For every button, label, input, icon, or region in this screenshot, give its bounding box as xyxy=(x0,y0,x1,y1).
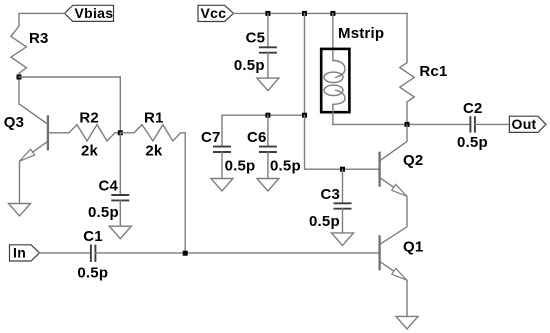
wire xyxy=(40,252,91,254)
node collector xyxy=(405,122,410,127)
svg-text:Vcc: Vcc xyxy=(201,5,227,21)
ground (Q1 emitter) xyxy=(396,316,418,329)
svg-text:R3: R3 xyxy=(29,30,49,47)
wire xyxy=(119,77,121,133)
node R2/R1 junction xyxy=(118,130,123,135)
svg-text:2k: 2k xyxy=(145,143,163,160)
svg-text:Q3: Q3 xyxy=(4,114,24,131)
transistor Q3 xyxy=(4,104,69,203)
svg-text:C6: C6 xyxy=(247,129,267,146)
wire xyxy=(222,114,305,116)
svg-text:Q2: Q2 xyxy=(403,152,423,169)
wire xyxy=(406,13,408,62)
svg-text:0.5p: 0.5p xyxy=(234,57,265,74)
ground (C3) xyxy=(332,233,354,246)
node bias junction xyxy=(17,75,22,80)
svg-text:C5: C5 xyxy=(246,30,266,47)
wire xyxy=(19,12,65,14)
svg-text:C4: C4 xyxy=(99,178,119,195)
svg-text:0.5p: 0.5p xyxy=(309,213,340,230)
capacitor C5 xyxy=(234,13,277,78)
capacitor C2 xyxy=(457,100,509,151)
port Vbias xyxy=(65,5,114,22)
ground (C6) xyxy=(257,179,279,192)
svg-text:Q1: Q1 xyxy=(403,239,423,256)
port Out xyxy=(509,116,546,133)
ground (C5) xyxy=(257,78,279,91)
resistor Rc1 xyxy=(400,63,448,102)
wire xyxy=(406,102,408,125)
resistor R3 xyxy=(11,13,49,77)
svg-text:In: In xyxy=(13,244,26,260)
transistor Q2 xyxy=(380,124,424,226)
ground (C7) xyxy=(211,179,233,192)
capacitor C1 xyxy=(77,228,108,281)
svg-text:R1: R1 xyxy=(144,109,164,126)
wire xyxy=(95,252,379,254)
transistor Q1 xyxy=(380,227,424,317)
svg-text:C2: C2 xyxy=(463,100,483,117)
wire xyxy=(234,12,408,14)
node Vcc/Mstrip xyxy=(330,11,335,16)
svg-text:C1: C1 xyxy=(83,228,103,245)
svg-text:Vbias: Vbias xyxy=(75,5,114,21)
node C7 rail / col2 xyxy=(302,113,307,118)
wire xyxy=(304,13,306,115)
node Q2 base / C3 xyxy=(340,167,345,172)
ground (C4) xyxy=(109,226,131,239)
node Vcc/col2 xyxy=(302,11,307,16)
svg-text:Mstrip: Mstrip xyxy=(338,25,384,42)
resistor R1 xyxy=(120,109,185,159)
node C7 rail / C6 xyxy=(265,113,270,118)
node input junction xyxy=(183,251,188,256)
svg-text:0.5p: 0.5p xyxy=(77,265,108,282)
microstrip Mstrip xyxy=(321,13,384,124)
svg-text:C3: C3 xyxy=(321,186,341,203)
svg-text:C7: C7 xyxy=(201,129,221,146)
svg-text:Rc1: Rc1 xyxy=(419,63,447,80)
svg-text:0.5p: 0.5p xyxy=(457,134,488,151)
capacitor C3 xyxy=(309,169,352,233)
wire xyxy=(18,77,20,104)
svg-text:2k: 2k xyxy=(81,143,99,160)
wire xyxy=(333,123,471,125)
ground (Q3 emitter) xyxy=(9,204,31,217)
svg-text:0.5p: 0.5p xyxy=(88,204,119,221)
svg-text:0.5p: 0.5p xyxy=(225,158,256,175)
port In xyxy=(10,244,40,261)
wire xyxy=(19,76,120,78)
resistor R2 xyxy=(69,109,120,159)
wire xyxy=(305,115,380,169)
svg-text:R2: R2 xyxy=(79,109,99,126)
wire xyxy=(184,133,186,253)
capacitor C6 xyxy=(247,115,301,178)
svg-text:Out: Out xyxy=(512,116,537,132)
port Vcc xyxy=(198,5,234,22)
node Vcc/C5 xyxy=(265,11,270,16)
capacitor C7 xyxy=(201,115,255,178)
capacitor C4 xyxy=(88,133,129,226)
svg-text:0.5p: 0.5p xyxy=(270,158,301,175)
